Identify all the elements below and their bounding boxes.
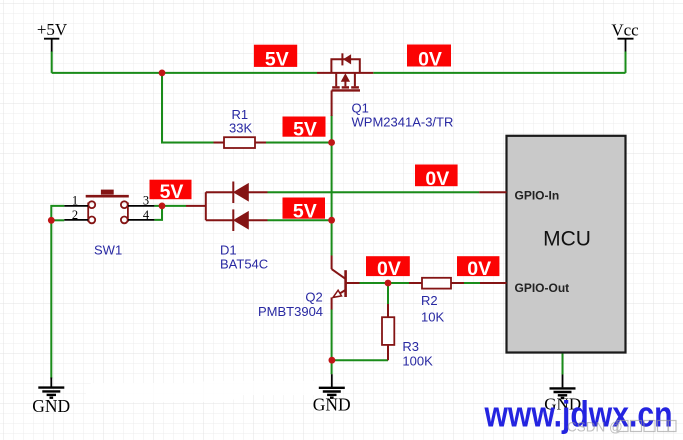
svg-text:D1: D1 (220, 242, 237, 257)
resistor R3 (382, 304, 394, 360)
svg-text:BAT54C: BAT54C (220, 257, 268, 272)
svg-text:0V: 0V (418, 48, 442, 70)
power flag Vcc (611, 21, 639, 53)
svg-text:10K: 10K (421, 310, 444, 325)
net label 0V (GPIO-In) (415, 165, 458, 190)
svg-text:+5V: +5V (37, 20, 68, 39)
wire top rail right (Vcc side) (373, 72, 625, 74)
svg-text:5V: 5V (160, 181, 184, 203)
ground (MCU) (544, 375, 581, 414)
wire Q2 base to R2 (360, 282, 410, 284)
svg-text:0V: 0V (377, 258, 401, 280)
wire top rail left (5V net) (52, 72, 317, 74)
watermark (faint white band bottom-left) (86, 381, 330, 402)
junction node (D1 bottom anode) (328, 217, 335, 224)
svg-text:Q2: Q2 (305, 290, 322, 305)
wire GPIO-In net (D1 top anode to MCU) (268, 191, 480, 193)
wire R1 right to node (266, 142, 332, 144)
svg-text:5V: 5V (293, 119, 317, 141)
wire Q2 emitter down to GND (331, 309, 333, 374)
wire R2 to MCU GPIO-Out (464, 282, 480, 284)
wire branch from top rail down to R1 row (162, 73, 214, 143)
svg-text:4: 4 (143, 208, 150, 222)
svg-text:Vcc: Vcc (611, 21, 639, 40)
transistor Q1 (PMOS) (317, 53, 373, 116)
svg-text:100K: 100K (402, 353, 433, 368)
wire R3 bottom to emitter (332, 359, 388, 361)
svg-text:Q1: Q1 (352, 101, 369, 116)
svg-text:R2: R2 (421, 293, 438, 308)
svg-text:GPIO-Out: GPIO-Out (515, 281, 570, 295)
junction node (R1 / Q1 gate / Q2) (328, 139, 335, 146)
resistor R1 (214, 137, 267, 148)
svg-text:1: 1 (72, 193, 78, 207)
svg-text:0V: 0V (425, 168, 449, 190)
wire base node down to R3 (387, 283, 389, 304)
junction node (top rail / R1 branch) (159, 70, 166, 77)
wire SW1 pin3 node to pin4 (154, 206, 162, 220)
svg-text:33K: 33K (229, 121, 252, 136)
wire Q1 gate down to node (331, 115, 333, 143)
wire D1 bottom anode to node (268, 219, 332, 221)
power flag +5V (37, 20, 68, 52)
svg-text:5V: 5V (265, 49, 289, 71)
net label 5V (R1 node) (283, 117, 326, 141)
svg-text:MCU: MCU (543, 228, 591, 251)
ground (left) (32, 378, 70, 416)
net label 0V (Q2 base) (366, 256, 410, 280)
net label 0V (GPIO-Out) (457, 256, 499, 280)
svg-text:GPIO-In: GPIO-In (515, 188, 560, 202)
junction node (emitter / R3 bottom) (329, 357, 336, 364)
svg-text:GND: GND (313, 394, 351, 414)
watermark CSDN (567, 420, 676, 435)
resistor R2 (409, 278, 464, 289)
junction node (SW1 pin3 / pin4 / D1) (159, 203, 166, 210)
svg-text:GND: GND (32, 396, 70, 416)
diode D1 (BAT54C dual) (186, 182, 268, 232)
svg-text:SW1: SW1 (94, 242, 122, 257)
MCU block (479, 136, 625, 353)
svg-text:5V: 5V (293, 200, 317, 222)
wire node down to D1 bottom anode node (331, 143, 333, 221)
wire left rail down to GND (50, 220, 52, 378)
switch SW1 (86, 190, 129, 224)
net label 0V (top rail right) (407, 45, 451, 71)
transistor Q2 (NPN PMBT3904) (332, 256, 360, 310)
wire SW1 pin2 node (51, 219, 64, 221)
svg-text:WPM2341A-3/TR: WPM2341A-3/TR (352, 115, 454, 130)
svg-text:CSDN @: CSDN @ (567, 420, 623, 435)
wire node down to Q2 collector (331, 220, 333, 255)
svg-text:2: 2 (72, 208, 78, 222)
wire SW1 pin1 to left rail (51, 206, 64, 220)
wire SW1 pin3 to D1 cathode (154, 205, 186, 207)
junction node (SW1 pin1 / pin2 / GND rail) (48, 217, 55, 224)
net label 5V (D1 bottom) (283, 198, 326, 223)
net label 5V (SW1 pin3) (150, 180, 192, 203)
net label 5V (top rail) (254, 45, 297, 71)
wire +5V rail drop (51, 52, 53, 73)
junction node (Q2 base / R2 / R3) (385, 280, 392, 287)
ground (middle) (313, 374, 351, 414)
wire MCU GND pin (562, 353, 564, 375)
svg-text:PMBT3904: PMBT3904 (258, 304, 323, 319)
wire Vcc drop (625, 52, 627, 73)
svg-text:0V: 0V (467, 258, 491, 280)
svg-text:3: 3 (143, 193, 149, 207)
svg-text:R3: R3 (402, 339, 419, 354)
